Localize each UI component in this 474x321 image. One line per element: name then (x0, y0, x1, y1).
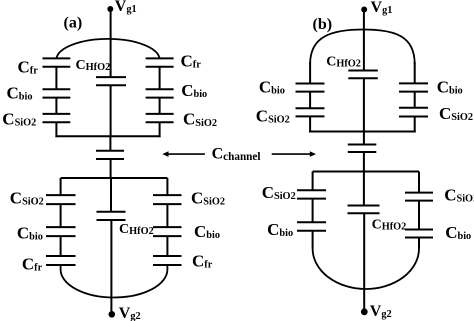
wire rail (b) top (309, 131, 416, 133)
wire (b) BL rail to CSiO2 (312, 172, 314, 191)
node Vg1 (b) (361, 7, 367, 13)
svg-text:(b): (b) (313, 16, 333, 33)
capacitor Cfr (a) top-left (43, 57, 71, 59)
wire Vg1 to CHfO2 top plate (b) (363, 10, 365, 71)
arrow right (toward b) (272, 153, 312, 155)
wire Vg1 to CHfO2 top plate (a) (110, 9, 112, 77)
wire (a) BL between Cbio and Cfr (60, 236, 62, 256)
capacitor Cchannel (a) (96, 150, 124, 152)
wire U-arc (a) bottom (61, 265, 168, 297)
svg-text:(a): (a) (64, 14, 83, 31)
wire (b) TL between Cbio and CSiO2 (309, 92, 311, 109)
wire (a) BR between CSiO2 and Cbio (166, 204, 168, 227)
wire Cchannel to lower rail (b) (363, 152, 365, 172)
wire U-arc (b) bottom (313, 249, 419, 289)
wire (a) BR between Cbio and Cfr (166, 236, 168, 256)
node Vg1 (a) (107, 6, 113, 12)
capacitor CSiO2 (a) top-right (146, 113, 174, 115)
capacitor Cfr (a) top-right (146, 57, 174, 59)
wire (a) CHfO2 to Vg2 (110, 220, 112, 312)
capacitor CHfO2 (b) bottom middle (348, 205, 380, 207)
capacitor Cfr (a) bottom-left (46, 255, 76, 257)
capacitor CSiO2 (a) bottom-right (153, 194, 182, 196)
wire (a) middle cap to rail (110, 85, 112, 136)
capacitor Cbio (a) bottom-right (153, 226, 182, 228)
node Vg2 (b) (361, 308, 368, 315)
wire rail (a) bottom (61, 177, 168, 179)
wire (a) TL between Cbio and CSiO2 (55, 98, 57, 114)
wire (a) BR rail to CSiO2 (166, 178, 168, 195)
wire (a) lower rail to CHfO2 (110, 178, 112, 212)
wire (b) TL dome to Cbio (309, 62, 311, 84)
wire (b) CHfO2 to Vg2 (363, 213, 365, 309)
wire (a) TL to rail (55, 122, 57, 137)
wire (a) TR between Cbio and CSiO2 (159, 98, 161, 114)
wire (b) TR to rail (414, 117, 416, 133)
wire rail to Cchannel cap (b) (363, 132, 365, 145)
capacitor Cchannel (b) (348, 144, 377, 146)
capacitor CHfO2 (a) bottom middle (97, 211, 126, 213)
capacitor CHfO2 (a) top middle (96, 76, 126, 78)
capacitor CSiO2 (a) top-left (43, 113, 71, 115)
node Vg2 (a) (109, 311, 116, 318)
wire rail (a) top (55, 135, 160, 137)
wire (a) BL rail to CSiO2 (60, 178, 62, 195)
capacitor Cbio (b) top-right (399, 82, 428, 84)
capacitor CSiO2 (a) bottom-left (46, 194, 76, 196)
capacitor CSiO2 (b) bottom-left (297, 189, 326, 191)
wire rail (b) bottom (313, 171, 419, 173)
wire rail to Cchannel cap (a) (109, 136, 111, 151)
wire (a) TL between Cfr and Cbio (55, 67, 57, 89)
wire (a) TR between Cfr and Cbio (159, 67, 161, 89)
capacitor Cbio (a) bottom-left (46, 226, 76, 228)
capacitor Cbio (b) top-left (296, 83, 325, 85)
capacitor Cbio (a) top-right (146, 88, 174, 90)
capacitor Cbio (a) top-left (43, 88, 71, 90)
wire Cchannel to lower rail (a) (110, 159, 112, 178)
wire (b) middle cap to rail (363, 78, 365, 131)
capacitor CSiO2 (b) bottom-right (405, 192, 433, 194)
wire (b) BL between CSiO2 and Cbio (312, 199, 314, 223)
arrow left (toward a) (166, 153, 205, 155)
capacitor Cbio (b) bottom-left (297, 221, 326, 223)
wire (b) BR to U-arc (418, 238, 420, 249)
capacitor CHfO2 (b) top middle (348, 70, 378, 72)
wire (b) TR dome to Cbio (414, 62, 416, 83)
wire dome arc (a) top (56, 39, 159, 58)
wire (b) BL to U-arc (312, 231, 314, 249)
capacitor CSiO2 (b) top-left (296, 107, 325, 109)
wire (b) BR between CSiO2 and Cbio (418, 201, 420, 230)
wire (a) TR to rail (159, 122, 161, 137)
wire (b) lower rail to CHfO2 (363, 172, 365, 206)
wire (a) BL between CSiO2 and Cbio (60, 204, 62, 227)
capacitor Cfr (a) bottom-right (153, 255, 182, 257)
wire (b) TR between Cbio and CSiO2 (414, 92, 416, 108)
wire (b) TL to rail (309, 116, 311, 132)
capacitor Cbio (b) bottom-right (405, 229, 433, 231)
wire dome arc (b) top (310, 30, 415, 65)
capacitor CSiO2 (b) top-right (399, 107, 428, 109)
wire (b) BR rail to CSiO2 (418, 172, 420, 193)
